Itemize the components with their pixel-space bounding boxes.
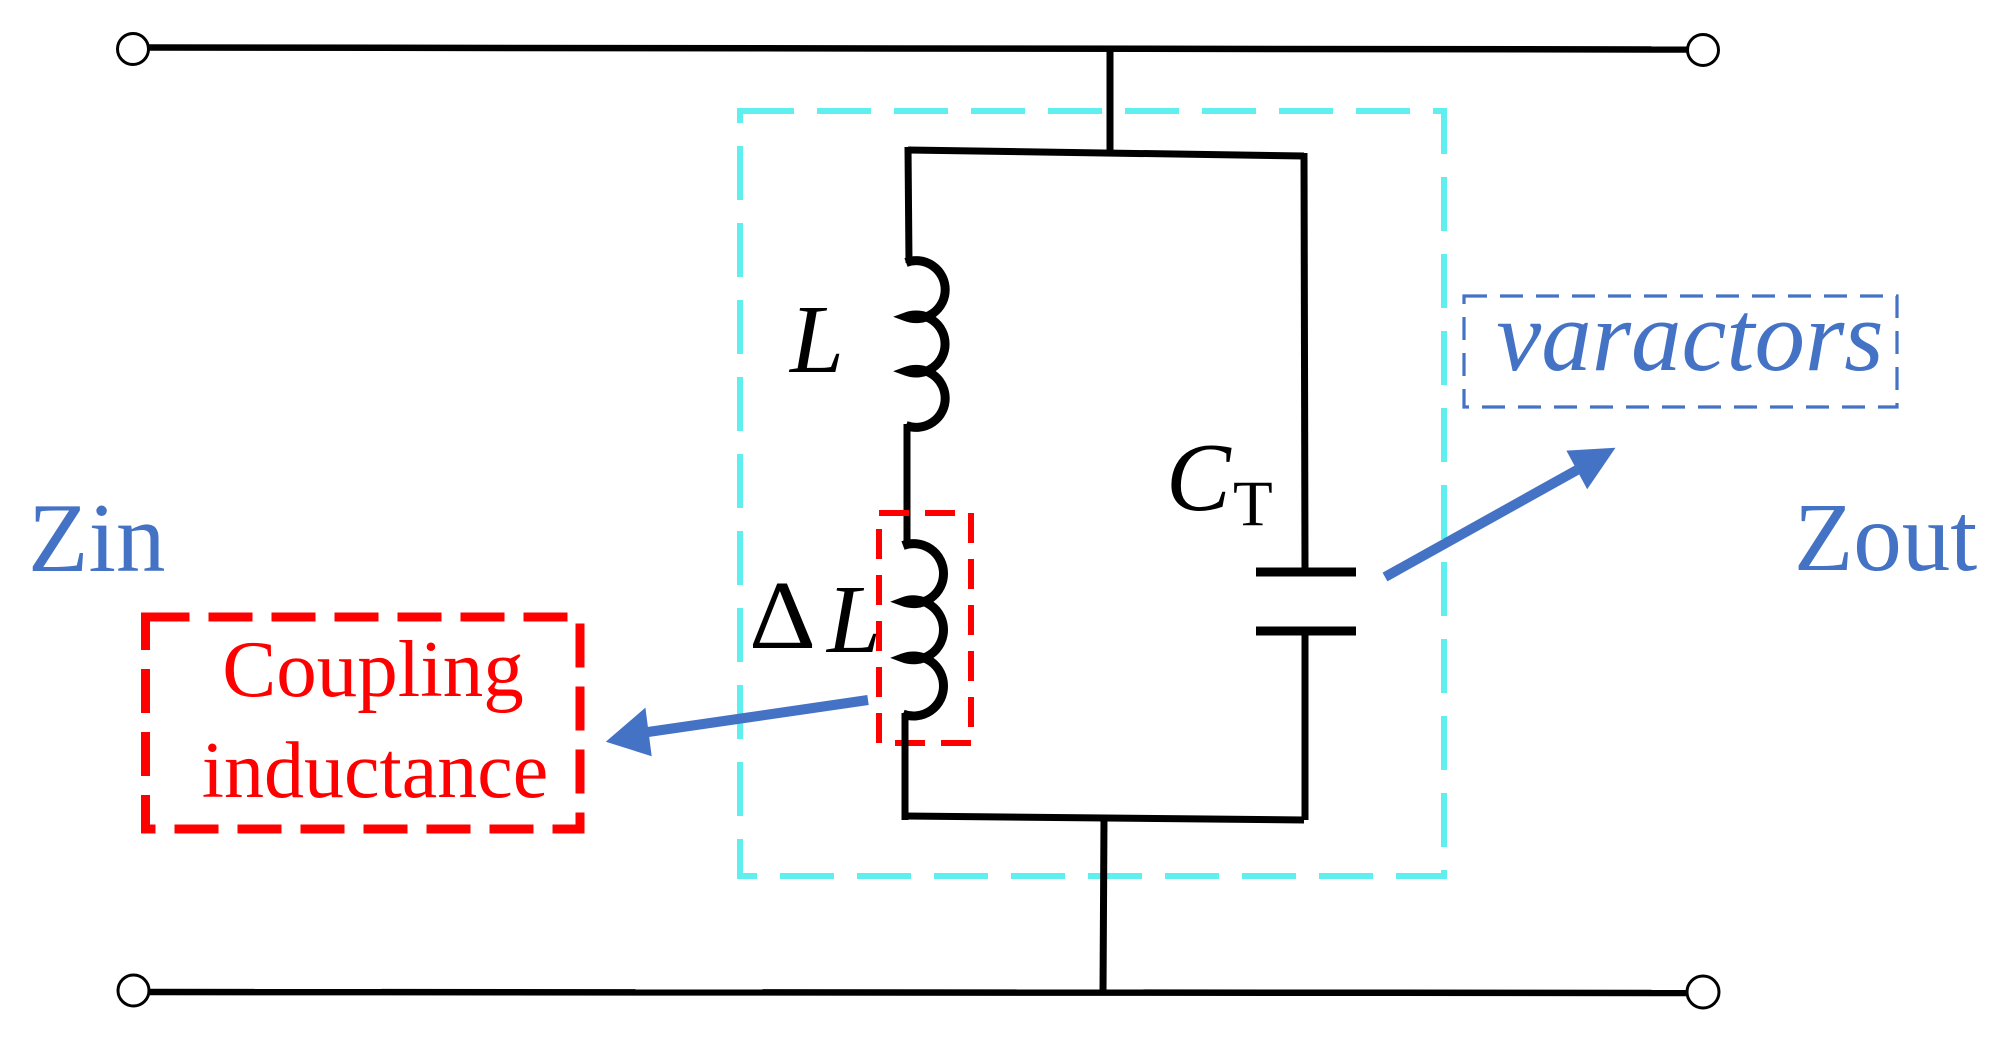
capacitor CT bottom plate (1256, 627, 1356, 636)
capacitor CT top plate (1256, 568, 1356, 577)
arrow to varactors (head) (1566, 448, 1615, 490)
tank circuit box (cyan dashed) (740, 111, 1444, 876)
wire bottom rail (149, 992, 1688, 993)
arrow to varactors (line) (1385, 470, 1577, 577)
terminal bottom-right (1687, 976, 1719, 1008)
wire tank top (908, 150, 1304, 156)
annotation box Coupling inductance (red dashed) (146, 617, 581, 829)
svg-text:L: L (788, 286, 844, 393)
svg-text:Coupling: Coupling (222, 624, 524, 714)
inductor ΔL (903, 544, 944, 716)
wire top rail (148, 48, 1688, 50)
wire left branch lower (902, 713, 909, 820)
svg-text:varactors: varactors (1496, 280, 1883, 392)
terminal bottom-left (118, 975, 149, 1006)
wire left branch middle (904, 424, 911, 547)
wire right branch upper (1304, 153, 1305, 568)
wire left branch upper (908, 147, 909, 263)
arrow to coupling box (head) (606, 708, 652, 757)
svg-text:Δ: Δ (749, 562, 816, 669)
svg-text:C: C (1166, 424, 1232, 531)
coupling inductance highlight box (red dashed) (879, 513, 971, 743)
wire bottom feed (1103, 818, 1104, 993)
svg-text:Zin: Zin (28, 484, 165, 593)
wire tank bottom (905, 816, 1304, 820)
wire top feed (1107, 47, 1114, 154)
svg-text:Zout: Zout (1794, 484, 1977, 591)
terminal top-right (1688, 35, 1719, 66)
wire right branch lower (1302, 631, 1309, 820)
inductor L (906, 261, 945, 428)
terminal top-left (118, 34, 149, 65)
svg-text:inductance: inductance (202, 727, 548, 815)
svg-text:T: T (1233, 468, 1273, 540)
arrow to coupling box (line) (648, 700, 868, 732)
annotation box varactors (blue dashed) (1464, 296, 1897, 407)
svg-text:L: L (825, 566, 881, 673)
